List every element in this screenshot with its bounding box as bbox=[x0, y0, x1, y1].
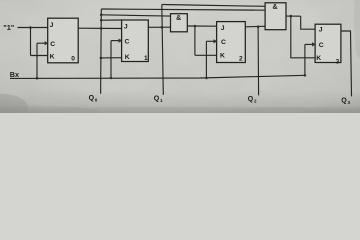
wire C drop of FF0 to clock line bbox=[36, 43, 38, 78]
junction dot FF1 clock tap on Bx line bbox=[110, 77, 113, 80]
clock arrow of FF1 bbox=[119, 39, 123, 43]
svg-text:C: C bbox=[221, 39, 226, 46]
flip-flop FF0 body bbox=[48, 18, 78, 63]
flip-flop FF3 body bbox=[315, 24, 341, 62]
clock arrow of FF2 bbox=[214, 39, 218, 43]
node Q0 output label bbox=[89, 95, 98, 103]
junction dot Q0 riser to AND1 branch bbox=[100, 14, 103, 17]
wire Q0 riser to FF1 top corner bbox=[101, 19, 121, 21]
junction dot K-loop of FF2 bbox=[194, 25, 197, 28]
svg-text:2: 2 bbox=[254, 99, 257, 104]
wire constant-1 to J of FF0 bbox=[18, 27, 48, 29]
wire Q0 riser vertical bbox=[100, 9, 103, 94]
svg-text:Q: Q bbox=[89, 95, 95, 102]
wire C drop of FF2 to clock line bbox=[205, 41, 207, 78]
wire K branch of FF3 bbox=[291, 16, 315, 58]
junction dot Q0 riser on Q0 wire bbox=[100, 27, 103, 30]
svg-text:&: & bbox=[176, 15, 181, 22]
wire C drop of FF3 to clock line bbox=[304, 44, 306, 75]
svg-text:&: & bbox=[272, 4, 277, 11]
AND gate AND2 body bbox=[265, 3, 286, 30]
wire Q1 to AND2 top feedback bbox=[162, 5, 265, 7]
node Q1 output label bbox=[154, 95, 163, 103]
junction dot FF0 clock tap on Bx line bbox=[36, 77, 39, 80]
svg-text:3: 3 bbox=[336, 59, 340, 66]
wire Q0 to AND1 feedback bbox=[101, 15, 170, 16]
junction dot FF2 clock tap on Bx line bbox=[205, 77, 208, 80]
wire AND2 output down to J of FF3 bbox=[301, 16, 315, 29]
svg-text:J: J bbox=[124, 23, 128, 30]
svg-text:J: J bbox=[221, 25, 225, 32]
svg-text:K: K bbox=[316, 55, 321, 62]
junction dot on J wire of FF0 bbox=[29, 26, 32, 29]
wire Q3 output of FF3 bbox=[341, 31, 352, 96]
wire Q0 to AND2 top feedback bbox=[101, 9, 265, 10]
svg-text:K: K bbox=[220, 53, 225, 60]
junction dot FF3 clock tap on Bx line bbox=[304, 74, 307, 77]
wire AND2 output bbox=[286, 15, 301, 17]
wire AND1 output to J of FF2 bbox=[187, 25, 216, 27]
svg-text:K: K bbox=[125, 54, 130, 61]
svg-text:Q: Q bbox=[154, 95, 160, 102]
wire Q2 riser vertical bbox=[257, 27, 260, 96]
wire into C input of FF3 bbox=[305, 43, 315, 45]
flip-flop FF1 body bbox=[122, 20, 149, 62]
clock arrow of FF0 bbox=[45, 41, 49, 45]
svg-text:2: 2 bbox=[239, 55, 243, 62]
wire Q0 output of FF0 to J of FF1 bbox=[78, 27, 121, 29]
svg-text:3: 3 bbox=[348, 100, 351, 105]
svg-text:0: 0 bbox=[95, 98, 98, 103]
wire K-loop vertical of FF2 bbox=[194, 26, 196, 55]
svg-text:"1": "1" bbox=[3, 23, 15, 32]
svg-text:K: K bbox=[50, 54, 55, 61]
svg-text:Q: Q bbox=[341, 98, 347, 105]
node Q3 output label bbox=[341, 98, 350, 106]
AND gate AND1 body bbox=[171, 14, 188, 32]
svg-text:C: C bbox=[125, 38, 130, 45]
wire Q1 output of FF1 to AND1 bbox=[148, 26, 170, 28]
junction dot K branch of FF3 bbox=[290, 15, 293, 18]
wire into C input of FF0 bbox=[37, 42, 48, 44]
wire into C input of FF1 bbox=[111, 40, 122, 42]
svg-text:1: 1 bbox=[160, 98, 163, 103]
wire Q2 output of FF2 to AND2 bbox=[245, 25, 265, 28]
svg-text:J: J bbox=[50, 22, 54, 29]
svg-text:J: J bbox=[319, 27, 323, 34]
wire Q1 riser vertical bbox=[162, 5, 164, 95]
wire into K input of FF2 bbox=[195, 54, 217, 56]
junction dot K feed of FF1 bbox=[100, 57, 103, 60]
clock arrow of FF3 bbox=[312, 42, 316, 46]
wire into C input of FF2 bbox=[206, 40, 216, 42]
svg-text:Q: Q bbox=[248, 96, 254, 103]
svg-text:C: C bbox=[50, 41, 55, 48]
junction dot Q1 riser on Q1 wire bbox=[161, 26, 164, 29]
wire Bx clock line bbox=[10, 75, 306, 78]
flip-flop FF2 body bbox=[217, 22, 246, 63]
svg-text:0: 0 bbox=[71, 55, 75, 62]
node Q2 output label bbox=[248, 96, 257, 104]
svg-text:C: C bbox=[319, 42, 324, 49]
junction dot Q0 riser upper branch bbox=[100, 19, 103, 22]
junction dot Q2 riser on Q2 wire bbox=[257, 25, 260, 28]
svg-text:Bx: Bx bbox=[10, 70, 19, 79]
wire into K input of FF0 bbox=[31, 55, 48, 57]
wire into K input of FF1 bbox=[101, 57, 122, 59]
svg-text:1: 1 bbox=[144, 55, 148, 62]
wire K-loop vertical of FF0 bbox=[30, 28, 32, 56]
wire C drop of FF1 to clock line bbox=[110, 41, 112, 78]
